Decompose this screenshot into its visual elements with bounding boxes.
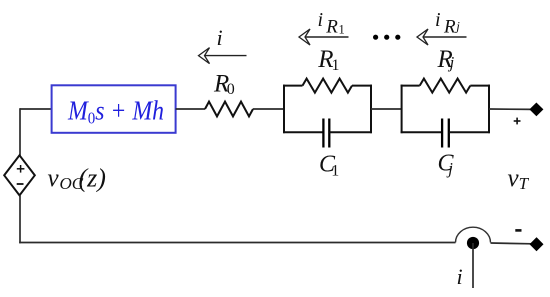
svg-text:iR1: iR1 <box>318 9 345 38</box>
RC1 bottom edge right segment <box>329 131 372 133</box>
svg-text:C1: C1 <box>319 152 339 180</box>
wire box to R0 <box>176 108 205 110</box>
current arrow iRj shaft <box>423 36 467 38</box>
terminal diamond negative <box>530 238 543 251</box>
terminal diamond positive <box>530 103 543 115</box>
voltage source plus sign <box>17 165 25 173</box>
RC1 bottom edge left segment <box>283 131 323 133</box>
label plus sign terminal <box>514 118 521 125</box>
resistor R0 <box>205 102 253 117</box>
RC1 frame right edge <box>370 85 372 134</box>
voltage source vOC diamond <box>4 155 35 195</box>
svg-text:M0s + Mh: M0s + Mh <box>67 96 164 128</box>
svg-text:vOC(z): vOC(z) <box>48 164 106 193</box>
wire left vertical lower <box>19 195 21 243</box>
current arrow i shaft <box>205 55 247 57</box>
RC2 top edge left segment <box>401 85 420 87</box>
RC2 frame right edge <box>488 85 490 134</box>
wire current branch down <box>472 243 474 288</box>
current arrow iR1 shaft <box>305 36 349 38</box>
svg-text:i: i <box>217 25 223 50</box>
RC1 top edge left segment <box>283 85 303 87</box>
wire R0 to RC1 <box>253 108 284 110</box>
svg-text:R1: R1 <box>317 46 339 74</box>
RC2 top edge right segment <box>470 85 490 87</box>
svg-text:R0: R0 <box>213 70 235 98</box>
wire bottom right to terminal <box>491 242 533 245</box>
svg-text:Rj: Rj <box>437 46 455 73</box>
current arrow iRj head <box>417 29 428 45</box>
wire left vertical upper <box>19 108 21 156</box>
resistor Rj <box>420 79 471 93</box>
voltage source minus sign <box>17 183 24 185</box>
RC2 bottom edge right segment <box>449 131 490 133</box>
RC1 frame left edge <box>283 85 285 134</box>
node junction dot <box>467 237 479 249</box>
RC2 frame left edge <box>401 85 403 134</box>
RC2 bottom edge left segment <box>401 131 443 133</box>
wire RC2 to terminal <box>489 108 532 110</box>
resistor R1 <box>303 79 353 93</box>
wire bottom horizontal <box>19 242 455 244</box>
label minus sign terminal <box>515 229 521 232</box>
current arrow i head <box>199 48 210 64</box>
RC1 top edge right segment <box>352 85 372 87</box>
svg-text:Cj: Cj <box>438 151 455 178</box>
current arrow iR1 head <box>299 29 310 45</box>
svg-text:vT: vT <box>508 165 530 193</box>
ellipsis dots <box>373 35 400 40</box>
wire RC1 to RC2 <box>371 108 402 110</box>
capacitor C1 <box>323 119 329 148</box>
wire top-left horizontal <box>20 108 52 110</box>
svg-text:i: i <box>457 264 463 289</box>
capacitor Cj <box>442 119 449 148</box>
hysteresis block box M0s+Mh <box>52 85 176 133</box>
wire hop arc over node <box>456 227 491 242</box>
svg-text:iRj: iRj <box>435 9 460 38</box>
